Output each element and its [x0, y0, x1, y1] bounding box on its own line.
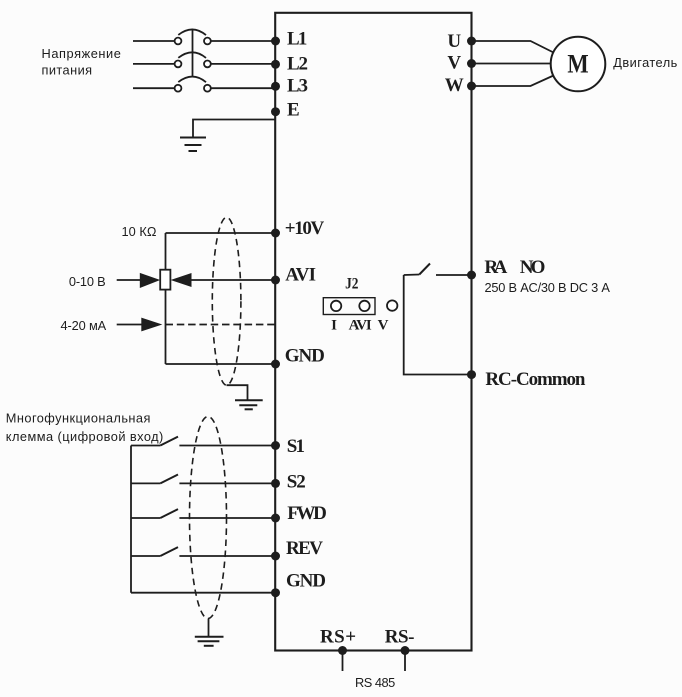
svg-text:M: M — [567, 50, 588, 79]
svg-text:4-20 мА: 4-20 мА — [61, 318, 107, 333]
svg-text:J2: J2 — [345, 276, 358, 293]
svg-text:V: V — [447, 52, 461, 73]
svg-text:S1: S1 — [287, 436, 305, 457]
svg-text:L1: L1 — [287, 29, 307, 50]
svg-text:0-10 В: 0-10 В — [69, 274, 106, 289]
svg-text:RA: RA — [484, 257, 507, 278]
svg-text:GND: GND — [285, 345, 325, 366]
svg-text:Двигатель: Двигатель — [613, 55, 677, 70]
svg-text:AVI: AVI — [285, 265, 316, 286]
svg-text:GND: GND — [286, 570, 326, 591]
svg-text:RS 485: RS 485 — [355, 675, 395, 690]
svg-text:L2: L2 — [287, 54, 308, 75]
svg-text:клемма (цифровой вход): клемма (цифровой вход) — [6, 429, 164, 444]
svg-text:+10V: +10V — [285, 218, 325, 239]
svg-text:Напряжение: Напряжение — [42, 46, 121, 61]
svg-text:250 В AC/30 В DC 3 А: 250 В AC/30 В DC 3 А — [485, 280, 611, 295]
svg-text:RS+: RS+ — [320, 626, 356, 647]
svg-text:RS-: RS- — [385, 626, 415, 647]
svg-text:U: U — [447, 31, 461, 52]
svg-text:E: E — [287, 100, 300, 121]
svg-text:питания: питания — [42, 62, 93, 77]
svg-text:RC-Common: RC-Common — [485, 369, 586, 390]
svg-text:S2: S2 — [287, 471, 306, 492]
svg-text:NO: NO — [520, 257, 546, 278]
svg-text:V: V — [378, 318, 389, 334]
svg-text:REV: REV — [286, 538, 323, 559]
svg-text:I: I — [331, 318, 337, 334]
svg-text:Многофункциональная: Многофункциональная — [6, 411, 151, 426]
svg-text:FWD: FWD — [287, 503, 327, 524]
svg-text:10 КΩ: 10 КΩ — [122, 224, 157, 239]
svg-text:W: W — [445, 75, 464, 96]
svg-text:AVI: AVI — [349, 318, 372, 334]
svg-text:L3: L3 — [287, 75, 308, 96]
